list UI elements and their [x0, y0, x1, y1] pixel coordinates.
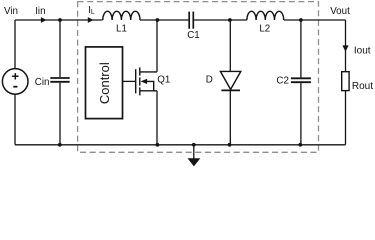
node junction C1/D [228, 18, 232, 22]
node junction diode bottom [228, 143, 232, 147]
svg-text:Iin: Iin [35, 6, 45, 17]
node junction top Cin [58, 18, 62, 22]
wire top rail [15, 19, 346, 21]
node junction L1/Q1 [156, 18, 160, 22]
svg-text:Vin: Vin [4, 6, 18, 17]
capacitor C1 [189, 12, 193, 29]
transistor Q1 [136, 67, 157, 95]
arrow Iin [41, 17, 47, 23]
capacitor C2 branch wire [300, 20, 302, 145]
wire control to gate [123, 80, 136, 82]
svg-text:L1: L1 [116, 23, 127, 34]
capacitor C2 [291, 78, 311, 82]
svg-text:D: D [206, 75, 213, 86]
arrow IL [88, 17, 94, 23]
svg-text:Rout: Rout [352, 81, 373, 92]
svg-text:C1: C1 [187, 30, 200, 41]
svg-text:Iout: Iout [354, 46, 371, 57]
control block [86, 47, 123, 119]
ground [193, 145, 195, 159]
svg-text:Control: Control [97, 62, 112, 104]
wire diode anode [229, 20, 231, 71]
inductor L1 [103, 11, 140, 20]
wire right column [345, 20, 347, 145]
wire bottom rail [15, 144, 346, 146]
node junction L2/C2 [299, 18, 303, 22]
diode D [220, 71, 240, 89]
wire Q1 drain up [156, 20, 158, 72]
node junction ground [192, 143, 196, 147]
svg-text:L2: L2 [259, 23, 270, 34]
svg-text:C2: C2 [276, 76, 289, 87]
converter dashed boundary box [78, 2, 319, 153]
inductor L2 [247, 11, 284, 20]
svg-text:Cin: Cin [35, 77, 50, 88]
capacitor Cin branch wire [59, 20, 61, 145]
voltage source Vin [2, 69, 28, 95]
wire diode cathode [229, 90, 231, 144]
arrow Iout [342, 45, 348, 51]
capacitor Cin [50, 78, 69, 82]
node junction Q1 source [156, 143, 160, 147]
resistor Rout [342, 72, 349, 91]
svg-text:Q1: Q1 [157, 75, 170, 86]
wire Q1 source down [156, 91, 158, 145]
node junction bottom Cin [58, 143, 62, 147]
wire left column [14, 20, 16, 145]
svg-text:Vout: Vout [330, 6, 350, 17]
node junction C2 bottom [298, 143, 302, 147]
